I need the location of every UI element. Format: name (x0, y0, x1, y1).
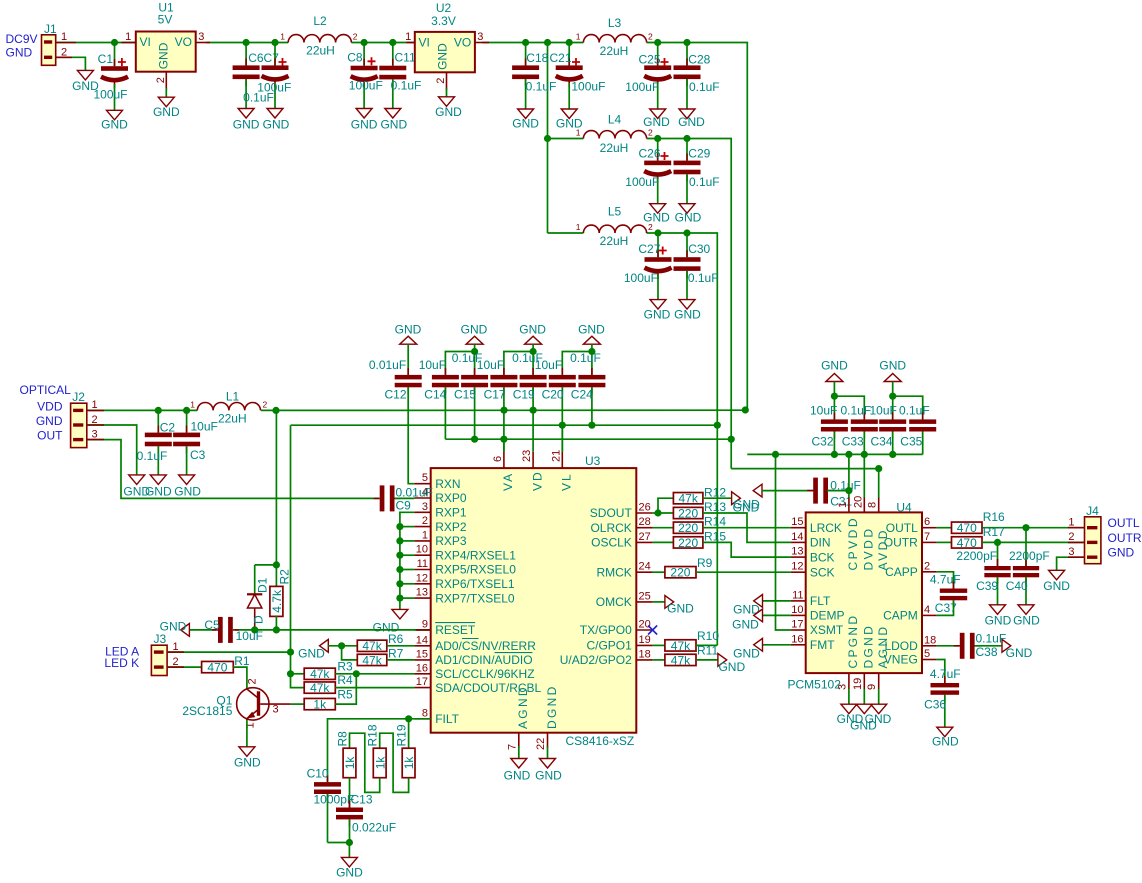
svg-text:3: 3 (273, 704, 279, 716)
inductor L2 22uH (280, 14, 358, 58)
svg-text:1: 1 (280, 32, 285, 42)
svg-text:VL: VL (560, 472, 574, 491)
svg-text:DGND: DGND (862, 624, 876, 669)
svg-text:J3: J3 (154, 632, 167, 646)
svg-text:DGND: DGND (545, 684, 559, 729)
svg-text:1k: 1k (373, 756, 387, 770)
junction VD column on VDD rail (530, 407, 537, 414)
svg-text:21: 21 (550, 450, 562, 462)
junction C39 top (994, 539, 1001, 546)
svg-text:1: 1 (405, 31, 411, 43)
resistor R5 1k (304, 687, 353, 711)
svg-text:8: 8 (867, 502, 879, 508)
capacitor C36 4.7uF (924, 667, 960, 727)
svg-text:R17: R17 (983, 525, 1005, 539)
svg-text:100uF: 100uF (93, 87, 127, 101)
svg-text:VO: VO (454, 36, 471, 50)
svg-text:18: 18 (924, 634, 936, 646)
svg-text:19: 19 (852, 678, 864, 690)
wire AGND to ground (518, 746, 520, 759)
svg-text:C14: C14 (424, 387, 446, 401)
wire R15 to BCK (703, 542, 791, 557)
svg-text:4: 4 (924, 604, 930, 616)
svg-text:47k: 47k (362, 653, 382, 667)
capacitor C32 10uF (810, 382, 848, 455)
capacitor C11 0.1uF (379, 43, 421, 109)
svg-text:3: 3 (836, 684, 848, 690)
junction C6 (243, 39, 250, 46)
capacitor C31 0.1uF (762, 478, 861, 509)
junction C20/VL on VL rail (559, 422, 566, 429)
svg-text:R7: R7 (388, 646, 404, 660)
svg-text:47k: 47k (310, 667, 330, 681)
svg-text:C21: C21 (550, 51, 572, 65)
ground (C11) (380, 109, 407, 132)
resistor R1 470 (202, 654, 250, 675)
wire RMCK to R9 (653, 571, 665, 573)
ground (R6/R7) (298, 639, 328, 660)
wire U2 3.3V rail to L3 (482, 42, 583, 44)
inductor L1 22uH (190, 390, 267, 426)
ground (C24 pair) (578, 323, 605, 345)
svg-text:GND: GND (674, 308, 701, 322)
svg-text:100uF: 100uF (625, 175, 659, 189)
svg-text:VO: VO (175, 35, 192, 49)
capacitor C37 4.7uF (930, 573, 967, 616)
wire FILT line (328, 719, 431, 782)
svg-text:GND: GND (675, 211, 702, 225)
svg-text:C18: C18 (526, 51, 548, 65)
svg-text:13: 13 (416, 587, 428, 599)
svg-text:J2: J2 (72, 390, 85, 404)
wire RXP ground chain (400, 512, 415, 609)
wire VDD branch to D1/R2 (255, 410, 277, 594)
svg-text:VD: VD (530, 470, 544, 491)
capacitor C30 0.1uF (674, 233, 719, 300)
svg-text:C19: C19 (513, 387, 535, 401)
capacitor C2 0.1uF (137, 410, 176, 475)
ground (C12) (395, 323, 422, 345)
junction DVDD (861, 451, 868, 458)
svg-text:GND: GND (234, 755, 261, 769)
svg-text:C2: C2 (160, 421, 176, 435)
svg-text:R19: R19 (395, 724, 409, 746)
resistor R19 1k (395, 719, 417, 778)
regulator U2 3.3V (405, 1, 489, 97)
capacitor C29 0.1uF (674, 139, 720, 204)
junction analog rail at L4 column (728, 436, 735, 443)
wire L3 out to corner (647, 43, 748, 411)
wire OLRCK to R14 (653, 527, 674, 529)
wire SDOUT to R13 (653, 512, 674, 514)
svg-text:R14: R14 (704, 515, 726, 529)
svg-text:OMCK: OMCK (596, 595, 632, 609)
wire J1 pin2 to ground (56, 57, 86, 70)
wire R14 to LRCK (703, 527, 791, 529)
svg-text:OLRCK: OLRCK (590, 521, 631, 535)
svg-text:22uH: 22uH (600, 44, 629, 58)
wire analog rail (L4) (445, 438, 731, 440)
ground (DGND U4) (850, 704, 877, 732)
wire R1 to Q1 collector (233, 667, 247, 688)
junction RXP chain (396, 580, 403, 587)
svg-text:GND: GND (644, 308, 671, 322)
resistor R9 220 (665, 556, 713, 580)
capacitor C12 0.01uF (369, 344, 422, 484)
svg-text:10uF: 10uF (810, 403, 837, 417)
svg-text:100uF: 100uF (349, 78, 383, 92)
ground (C30) (674, 300, 701, 322)
junction VA column on VDD rail (500, 407, 507, 414)
ground (U1) (153, 97, 180, 119)
resistor R18 1k (366, 724, 388, 778)
svg-text:2: 2 (155, 77, 167, 83)
wire R16 to J4 pin1 (982, 527, 1085, 529)
svg-text:C10: C10 (307, 767, 329, 781)
svg-text:13: 13 (791, 546, 803, 558)
capacitor C13 0.022uF (336, 792, 396, 842)
junction AVDD (875, 465, 882, 472)
svg-text:1: 1 (190, 400, 195, 410)
wire R12 to ground (703, 497, 732, 499)
svg-text:2: 2 (1068, 531, 1074, 543)
resistor R17 470 (952, 525, 1006, 550)
svg-text:C26: C26 (639, 147, 661, 161)
wire VL rail branch down to LED/pullups (291, 425, 305, 687)
svg-text:L1: L1 (226, 390, 240, 404)
svg-text:LRCK: LRCK (810, 521, 842, 535)
capacitor C3 10uF (173, 410, 218, 475)
junction C1 (111, 39, 118, 46)
junction C3 (183, 407, 190, 414)
junction L1 out (272, 407, 279, 414)
wire R3 to SCL (335, 673, 414, 675)
svg-text:100uF: 100uF (257, 80, 291, 94)
junction C18 (522, 39, 529, 46)
svg-text:220: 220 (670, 566, 690, 580)
svg-text:17: 17 (416, 676, 428, 688)
svg-text:C20: C20 (542, 387, 564, 401)
svg-text:GND: GND (678, 115, 705, 129)
svg-text:R15: R15 (704, 529, 726, 543)
svg-text:2: 2 (648, 222, 653, 232)
svg-text:0.1uF: 0.1uF (391, 78, 422, 92)
svg-text:C15: C15 (454, 387, 476, 401)
svg-text:U/AD2/GPO2: U/AD2/GPO2 (560, 653, 632, 667)
ground (J2 pin2) (123, 475, 150, 499)
wire CPGND/DGND/AGND grounds (849, 689, 879, 704)
svg-text:1: 1 (422, 529, 428, 541)
svg-text:R18: R18 (366, 724, 380, 746)
wire Q1 base to R5 (291, 703, 305, 705)
svg-text:0.1uF: 0.1uF (689, 80, 720, 94)
svg-text:1: 1 (61, 31, 67, 43)
svg-text:GND: GND (718, 660, 745, 674)
svg-text:C29: C29 (688, 147, 710, 161)
resistor R6 47k (357, 632, 403, 653)
wire VDD rail J2 to L1 (87, 409, 198, 411)
junction C34 bottom (889, 451, 896, 458)
capacitor C17 10uF (477, 352, 533, 452)
wire VL rail (L5) (291, 424, 718, 426)
svg-text:U4: U4 (896, 501, 912, 515)
svg-text:RXP1: RXP1 (435, 506, 467, 520)
svg-text:3.3V: 3.3V (431, 14, 456, 28)
svg-text:L3: L3 (608, 16, 622, 30)
svg-text:R10: R10 (697, 629, 719, 643)
svg-text:D: D (252, 615, 266, 624)
junction C15 bottom on analog rail (471, 436, 478, 443)
svg-text:D1: D1 (256, 577, 270, 593)
svg-text:0.1uF: 0.1uF (526, 79, 557, 93)
svg-text:RXP2: RXP2 (435, 520, 467, 534)
wire OUTL to R16 (937, 527, 952, 529)
junction D1 bottom (251, 626, 258, 633)
svg-text:1: 1 (125, 31, 131, 43)
svg-text:18: 18 (639, 648, 651, 660)
ground (C21) (556, 109, 583, 131)
wire U/AD2 to R11 (653, 659, 665, 661)
svg-text:J4: J4 (1086, 504, 1099, 518)
svg-text:GND: GND (667, 601, 694, 615)
svg-text:100uF: 100uF (624, 271, 658, 285)
wire AVDD to rail (878, 469, 880, 498)
wire CAPP to C37 (937, 572, 954, 589)
svg-text:C25: C25 (639, 53, 661, 67)
svg-text:1000pF: 1000pF (314, 792, 355, 806)
svg-text:AD1/CDIN/AUDIO: AD1/CDIN/AUDIO (435, 653, 532, 667)
resistor R10 47k (665, 629, 719, 653)
svg-text:GND: GND (512, 117, 539, 131)
svg-text:22uH: 22uH (600, 234, 629, 248)
svg-text:CPGND: CPGND (846, 614, 860, 669)
ground (C36) (932, 727, 959, 748)
svg-text:FLT: FLT (810, 594, 831, 608)
svg-text:DC9V: DC9V (6, 32, 38, 46)
ground (AGND U4) (865, 704, 892, 726)
ground (DEMP) (732, 609, 791, 631)
svg-text:GND: GND (519, 323, 546, 337)
svg-text:3: 3 (1068, 546, 1074, 558)
ground (C15 pair) (461, 323, 488, 345)
svg-text:GND: GND (1006, 646, 1033, 660)
ground (R12) (732, 492, 761, 512)
wire 9V rail J1 to U1 (56, 42, 136, 44)
svg-text:2: 2 (648, 128, 653, 138)
svg-text:C5: C5 (204, 618, 220, 632)
junction C24 bottom on VL rail (588, 422, 595, 429)
junction C2 (155, 407, 162, 414)
junction XSMT on CPVDD rail (772, 451, 779, 458)
ground (C5 left) (160, 619, 190, 636)
svg-text:LED K: LED K (104, 656, 139, 670)
svg-text:C11: C11 (395, 50, 416, 64)
svg-text:C34: C34 (871, 435, 893, 449)
svg-text:L5: L5 (608, 205, 622, 219)
svg-text:RXP6/TXSEL1: RXP6/TXSEL1 (435, 577, 515, 591)
connector J1 (42, 22, 68, 65)
svg-text:22: 22 (535, 738, 547, 750)
svg-text:OUTL: OUTL (1108, 516, 1140, 530)
svg-text:GND: GND (733, 647, 760, 661)
wire R10 to VL rail (696, 644, 717, 646)
junction RXP chain (396, 566, 403, 573)
svg-text:20: 20 (852, 496, 864, 508)
capacitor C10 1000pF (307, 767, 355, 843)
svg-text:5: 5 (924, 648, 930, 660)
capacitor C28 0.1uF (674, 43, 720, 110)
svg-text:1k: 1k (402, 756, 416, 770)
junction C24 top (588, 348, 595, 355)
resistor R2 4.7k (270, 569, 292, 630)
svg-text:22uH: 22uH (600, 141, 629, 155)
wire R3 left stub (291, 673, 305, 675)
wire R6 left (328, 645, 357, 647)
svg-text:9: 9 (866, 684, 878, 690)
svg-text:RXP7/TXSEL0: RXP7/TXSEL0 (435, 591, 515, 605)
svg-text:GND: GND (733, 501, 760, 515)
junction C40 top (1022, 524, 1029, 531)
svg-text:20: 20 (639, 619, 651, 631)
svg-text:GND: GND (1013, 613, 1040, 627)
svg-text:10uF: 10uF (236, 629, 263, 643)
svg-text:DEMP: DEMP (810, 609, 845, 623)
ground (C10/C13) (336, 857, 363, 879)
wire C/GPO1 to R10 (653, 644, 665, 646)
svg-text:10uF: 10uF (535, 358, 562, 372)
svg-text:C/GPO1: C/GPO1 (586, 639, 632, 653)
capacitor C25 100uF (625, 43, 671, 110)
svg-text:2200pF: 2200pF (1009, 549, 1050, 563)
ground (C8) (351, 109, 378, 132)
svg-text:C32: C32 (812, 435, 834, 449)
ground (C3) (174, 475, 201, 499)
ground (C40) (1013, 605, 1040, 628)
svg-text:15: 15 (416, 648, 428, 660)
svg-text:VI: VI (140, 35, 151, 49)
svg-text:R1: R1 (234, 654, 250, 668)
ground (FLT) (733, 595, 791, 617)
wire R11 to ground (696, 659, 718, 661)
wire R7 jog (342, 646, 358, 660)
svg-text:OSCLK: OSCLK (591, 536, 632, 550)
ground (C27) (644, 300, 671, 322)
junction VL rail at L5 column (714, 422, 721, 429)
svg-text:C8: C8 (347, 50, 363, 64)
svg-text:GND: GND (461, 323, 488, 337)
svg-text:220: 220 (678, 521, 698, 535)
wire J4 pin3 to ground (1057, 557, 1085, 570)
svg-text:RMCK: RMCK (596, 565, 631, 579)
svg-text:RXP0: RXP0 (435, 491, 467, 505)
wire DGND to ground (547, 746, 549, 759)
svg-text:10: 10 (791, 604, 803, 616)
wire 3.3V vertical rail to L4/L5 (547, 43, 549, 234)
svg-text:28: 28 (639, 516, 651, 528)
svg-text:2: 2 (247, 678, 259, 684)
svg-text:J1: J1 (44, 22, 57, 36)
svg-text:1: 1 (173, 641, 179, 653)
ground (CPGND) (837, 704, 864, 726)
svg-text:47k: 47k (671, 639, 691, 653)
svg-text:GND: GND (879, 358, 906, 372)
junction L4 input (544, 135, 551, 142)
svg-text:GND: GND (436, 43, 450, 70)
svg-text:GND: GND (932, 734, 959, 748)
svg-text:GND: GND (174, 485, 201, 499)
svg-text:220: 220 (678, 506, 698, 520)
svg-text:GND: GND (36, 414, 63, 428)
capacitor C38 0.1uF (937, 631, 1006, 658)
svg-text:C1: C1 (98, 52, 114, 66)
junction C19 top (530, 348, 537, 355)
svg-text:GND: GND (157, 42, 171, 69)
svg-text:470: 470 (207, 661, 227, 675)
junction C32 top (831, 393, 838, 400)
svg-text:C17: C17 (484, 387, 506, 401)
svg-text:PCM5102: PCM5102 (788, 678, 842, 692)
svg-text:0.1uF: 0.1uF (689, 175, 720, 189)
svg-text:GND: GND (435, 105, 462, 119)
svg-text:26: 26 (639, 502, 651, 514)
wire R9 to SCK (696, 571, 791, 573)
svg-text:R8: R8 (336, 731, 350, 747)
capacitor C9 0.01uF (374, 485, 433, 512)
svg-text:47k: 47k (678, 492, 698, 506)
svg-text:OUT: OUT (37, 429, 63, 443)
junction C21 (566, 39, 573, 46)
svg-text:1: 1 (576, 128, 581, 138)
svg-text:0.022uF: 0.022uF (352, 821, 396, 835)
svg-text:16: 16 (416, 662, 428, 674)
junction J3 pin1 branch (287, 649, 294, 656)
svg-text:GND: GND (351, 117, 378, 131)
svg-text:GND: GND (395, 323, 422, 337)
connector J2 (71, 390, 98, 448)
wire R19 to R18 (380, 733, 409, 792)
svg-text:10uF: 10uF (477, 358, 504, 372)
junction C29 (683, 135, 690, 142)
svg-text:BCK: BCK (810, 550, 835, 564)
svg-text:GND: GND (865, 712, 892, 726)
capacitor C21 100uF (550, 43, 606, 110)
svg-text:SCL/CCLK/96KHZ: SCL/CCLK/96KHZ (435, 667, 534, 681)
junction VDD rail to L3 rail (742, 406, 749, 413)
svg-text:1k: 1k (343, 756, 357, 770)
svg-text:C12: C12 (385, 387, 407, 401)
svg-text:1: 1 (92, 399, 98, 411)
capacitor C20 10uF (535, 352, 592, 452)
svg-text:DVDD: DVDD (862, 526, 876, 570)
ground (C6) (233, 109, 260, 132)
ground (C26) (643, 204, 670, 225)
svg-text:0.1uF: 0.1uF (137, 449, 168, 463)
IC U4 PCM5102 (788, 496, 937, 692)
svg-text:GND: GND (298, 647, 325, 661)
svg-text:DIN: DIN (810, 536, 831, 550)
wire C37 to CAPM (937, 600, 954, 615)
junction R3 branch (287, 670, 294, 677)
ground (J1 pin2) (72, 70, 99, 93)
svg-text:11: 11 (417, 558, 428, 570)
svg-text:10uF: 10uF (419, 358, 446, 372)
svg-text:2: 2 (435, 78, 447, 84)
svg-text:7: 7 (924, 531, 930, 543)
wire J3 pin2 to R1 (167, 666, 202, 668)
capacitor C19 0.1uF (512, 344, 547, 452)
wire R8 to C13 (349, 778, 351, 808)
junction RXP chain (396, 595, 403, 602)
